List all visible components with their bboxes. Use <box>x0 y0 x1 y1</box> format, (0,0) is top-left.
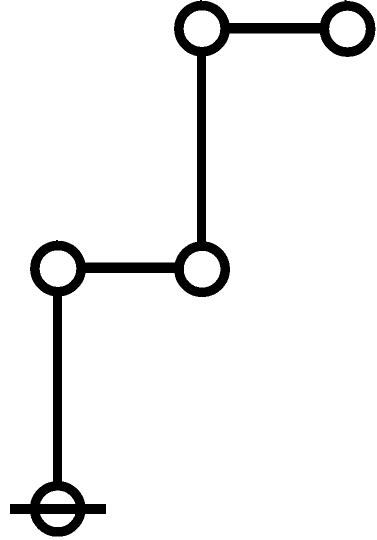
terminal node D (middle-left circle) <box>35 240 81 292</box>
wire D-E (left vertical) <box>53 268 62 508</box>
wire A-B (top horizontal) <box>202 23 347 33</box>
terminal node C (middle-right circle) <box>179 246 225 292</box>
ground bar through E (horizontal line) <box>10 504 106 514</box>
ground terminal E (bottom circle) <box>35 486 81 532</box>
wire D-C (middle horizontal) <box>58 263 202 273</box>
wire A-C (right vertical) <box>197 28 206 269</box>
terminal node B (top-right circle) <box>324 0 370 52</box>
terminal node A (top-left circle) <box>179 0 225 52</box>
